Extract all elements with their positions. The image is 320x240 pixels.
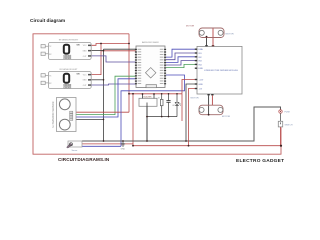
svg-text:Circuit diagram: Circuit diagram (30, 18, 65, 24)
ultrasonic sensor (52, 98, 76, 132)
wire: dark GND to arduino y=49.2 (104, 48, 137, 50)
driver top pins (205, 45, 207, 46)
wire: gray ground bus y=140.6 (82, 107, 281, 141)
svg-text:GND: GND (83, 80, 88, 82)
svg-text:IR SENSOR RIGHT: IR SENSOR RIGHT (59, 40, 79, 42)
servo horn arm (67, 143, 73, 148)
wire: green ultrasonic TRIG (73, 76, 136, 114)
wire: red border drop / ultrasonic VCC riser x=129 (128, 34, 130, 112)
svg-text:GND: GND (121, 149, 126, 151)
IR sensor left module (41, 69, 91, 89)
wire: blue ultrasonic ECHO (73, 79, 136, 117)
wire: red power border loop (33, 34, 281, 154)
IR2 RX connector (41, 81, 45, 84)
wire: dark GND vertical x=103.5 (103, 49, 105, 140)
motor M1 (186, 26, 234, 38)
fuse F1 (279, 110, 291, 114)
motor driver module L298N (195, 45, 242, 95)
wire: fuse to switch (280, 113, 282, 121)
wire: driver +12V red (182, 80, 197, 94)
svg-text:CIRCUITDIAGRAMS.IN: CIRCUITDIAGRAMS.IN (58, 157, 110, 162)
wire: red battery drop x=133 (132, 94, 134, 146)
wire: blue servo loop under arduino (121, 75, 185, 146)
wire: red battery plus rail y=145.7 (133, 145, 281, 147)
wire: red IR2 VCC vertical x=101 (91, 44, 101, 75)
wire: red IR VCC rail y=43.5 (91, 44, 129, 46)
wire: motor2 dark lead (208, 95, 210, 114)
buzzer BZ1 (139, 94, 157, 106)
svg-text:L298N MOTOR DRIVER MODULE: L298N MOTOR DRIVER MODULE (204, 70, 239, 72)
wire: IR2 GND stub (91, 79, 104, 81)
wire: arduino to driver control bus blue 1 (166, 49, 195, 57)
switch SW1 (278, 121, 293, 127)
svg-text:FUSE: FUSE (285, 111, 291, 113)
driver bottom pins (207, 94, 209, 95)
wire: buzzer to ground bus (146, 106, 148, 141)
wire: red rail under arduino y=93.8 (129, 93, 182, 95)
svg-text:MOTOR: MOTOR (186, 26, 195, 28)
wire: servo blue signal lead (82, 145, 121, 147)
svg-text:ULTRASONIC SENSOR: ULTRASONIC SENSOR (52, 101, 55, 127)
wire: red 5V feed to arduino y=50.8 (101, 50, 136, 52)
svg-text:ELECTRO GADGET: ELECTRO GADGET (236, 158, 284, 164)
arduino usb connector (146, 85, 157, 88)
motor M2 (191, 98, 231, 119)
wire: driver +5V red x=188.5 (189, 89, 198, 146)
wire: arduino to driver control bus purple 4 (166, 61, 195, 65)
IR1 RX connector (41, 52, 45, 55)
driver left pins group2 (195, 79, 197, 89)
LED D1 (172, 94, 181, 117)
wire: red ultrasonic VCC (73, 111, 129, 113)
svg-text:ARDUINO NANO: ARDUINO NANO (142, 41, 159, 44)
wire: servo red lead (82, 143, 133, 145)
driver pin labels (199, 48, 204, 90)
svg-text:MOTOR: MOTOR (191, 98, 200, 100)
IR1 comparator IC (64, 45, 69, 54)
wire: IR1 GND stub (91, 50, 104, 52)
wire: red stub x=182 below rail (181, 94, 183, 121)
wire: driver GND dark x=186 (186, 84, 197, 141)
ground symbol (121, 141, 125, 146)
wire: motor2 red lead (211, 95, 213, 105)
svg-text:SWITCH: SWITCH (285, 125, 293, 127)
wire: ultrasonic GND stub (73, 118, 104, 120)
ultrasonic pin header (70, 111, 73, 113)
IR2 trimpot (64, 84, 71, 88)
arduino pin labels right (160, 49, 164, 84)
wire: arduino to driver control bus blue 3 (166, 57, 195, 63)
wire: purple IR2 OUT (91, 84, 136, 85)
IR2 TX connector (41, 74, 45, 77)
wire: purple IR1 OUT (91, 56, 136, 62)
IR2 comparator IC (64, 74, 69, 83)
svg-text:ENB: ENB (199, 68, 204, 70)
arduino pin labels left (138, 49, 142, 84)
svg-text:GND: GND (83, 51, 88, 53)
IR1 TX connector (41, 45, 45, 48)
svg-text:GND: GND (199, 84, 204, 86)
svg-text:ENA: ENA (199, 48, 204, 51)
wire: motor1 dark lead (206, 36, 208, 46)
IR sensor right module (41, 40, 91, 60)
svg-text:MOTOR: MOTOR (226, 34, 235, 36)
resistor R1 (158, 94, 163, 117)
svg-text:MOTOR: MOTOR (222, 116, 231, 118)
wire: dark bottom rail of indicator cluster (147, 116, 177, 118)
svg-text:+12V: +12V (199, 80, 204, 82)
wire: arduino to driver control bus purple 2 (166, 53, 195, 60)
arduino mcu chip diamond (145, 68, 155, 78)
wire: arduino to driver green ENB (166, 64, 195, 67)
svg-text:Servo: Servo (72, 149, 78, 152)
arduino pins right column (164, 49, 166, 84)
servo SG90 (67, 141, 82, 152)
driver left pins group1 (195, 49, 197, 69)
wire: motor1 red lead (212, 28, 214, 46)
arduino pins left column (135, 49, 137, 84)
capacitor C1 (166, 94, 170, 117)
IR1 trimpot (64, 55, 71, 59)
op board: arduino nano U1 (135, 41, 166, 87)
wire: switch to battery plus rail (280, 127, 282, 146)
svg-text:IR SENSOR LEFT: IR SENSOR LEFT (60, 69, 79, 71)
